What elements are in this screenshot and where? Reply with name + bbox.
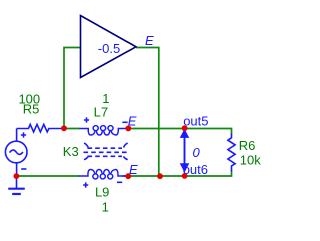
svg-text:E: E: [145, 33, 154, 48]
L7 plus: [84, 117, 89, 122]
ground: [8, 178, 25, 194]
junction dot R5/amp input node: [61, 125, 67, 131]
wire bottom rail right: [123, 171, 232, 177]
inductor L7: [80, 126, 128, 135]
svg-text:E: E: [128, 114, 137, 129]
svg-text:L7: L7: [94, 104, 108, 119]
svg-text:R5: R5: [23, 102, 40, 117]
resistor R5: [17, 124, 61, 131]
junction dot node E at L9: [125, 173, 131, 179]
inductor L9: [79, 170, 126, 179]
L9 minus: [117, 181, 122, 183]
junction dot node E at L7: [125, 125, 131, 131]
L7 minus: [122, 121, 127, 123]
svg-text:0: 0: [193, 145, 201, 160]
wire top rail left segment: [61, 128, 80, 130]
svg-text:out5: out5: [183, 114, 208, 129]
junction dot node out6: [182, 173, 188, 179]
svg-text:K3: K3: [63, 144, 79, 159]
wire top rail right segment: [126, 129, 232, 135]
voltage source V1: [5, 129, 27, 175]
svg-text:R6: R6: [239, 138, 256, 153]
junction dot node out5: [182, 125, 188, 131]
resistor R6: [228, 134, 235, 172]
svg-text:-0.5: -0.5: [98, 41, 120, 56]
wire amp output to bottom rail: [136, 48, 159, 177]
svg-text:L9: L9: [95, 185, 109, 200]
current arrow 0: [181, 130, 189, 172]
svg-text:E: E: [129, 162, 138, 177]
op-amp E1 triangle: [81, 16, 137, 78]
wire bottom rail left: [16, 175, 79, 177]
coupling K3 core: [84, 143, 128, 160]
junction dot at ground node: [14, 173, 20, 179]
svg-text:10k: 10k: [240, 152, 261, 167]
svg-text:out6: out6: [183, 162, 208, 177]
wire amp input: [64, 48, 80, 129]
svg-text:1: 1: [102, 200, 109, 215]
L9 plus: [83, 182, 88, 187]
junction dot amp output on bottom rail: [157, 173, 163, 179]
